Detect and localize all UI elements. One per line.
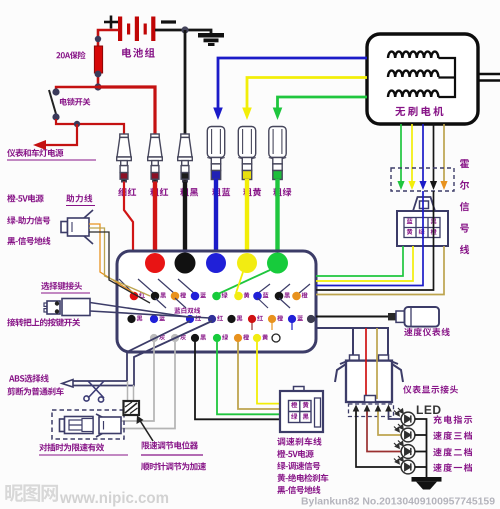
display cable bundle outline bbox=[316, 328, 388, 356]
wire navy pair from select-key connector to controller bbox=[90, 303, 210, 319]
wire to instrument/lamp power with left arrow bbox=[43, 124, 77, 145]
wire thick red to controller bbox=[153, 182, 157, 259]
throttle/brake connector J3 notch bbox=[294, 387, 305, 392]
wire internal diagonal to row1 black bbox=[138, 279, 155, 294]
label 仪表和车灯电源 underlined bbox=[7, 149, 63, 157]
female connector thick-yellow (粗黄) bbox=[238, 127, 255, 180]
wire LED cathodes to ground bus bbox=[415, 419, 427, 477]
wire internal stub below row1 orange bbox=[175, 298, 186, 308]
ground symbol LED bus bbox=[412, 477, 442, 490]
label 接转把上的按键开关 bbox=[7, 318, 80, 326]
label 速度二档 bbox=[433, 448, 472, 457]
label 速度一档 bbox=[433, 463, 472, 472]
motor phase coil V bbox=[388, 71, 438, 77]
wire internal diagonal to row1 black2 bbox=[278, 284, 290, 294]
PAS connector J1 (助力线) wings bbox=[84, 210, 93, 244]
wire internal stub below row1 black bbox=[155, 298, 166, 308]
wire dark-red to LED3 bbox=[367, 416, 401, 452]
bullet connector thin-red (细红) bbox=[117, 134, 132, 182]
display connector bottom notch bbox=[365, 396, 376, 403]
label 对插时为限速有效 underlined bbox=[39, 443, 104, 451]
wire black controller to throttle connector bbox=[195, 342, 280, 419]
node fuse bottom bbox=[95, 71, 102, 78]
controller pin row 3 dots with labels bbox=[150, 334, 158, 342]
limit male connector body bbox=[60, 417, 94, 434]
label 无刷电机 bbox=[395, 106, 443, 116]
wire thick green to controller bbox=[275, 179, 279, 258]
label 顺时针调节为加速 bbox=[141, 462, 206, 470]
label 霍尔信号线 (vertical) bbox=[460, 159, 469, 168]
brushless motor M1 (无刷电机) body bbox=[367, 34, 478, 124]
dashed plug-direction box (hall) bbox=[391, 168, 454, 191]
label 助力线 underlined bbox=[66, 194, 92, 202]
controller pin row 1 dots with labels bbox=[130, 292, 139, 301]
wire blue hall to controller bbox=[316, 191, 423, 286]
wire black battery- to ground and down bbox=[155, 30, 211, 33]
female connector thick-blue (粗蓝) bbox=[207, 127, 224, 180]
wire internal diagonal to row1 red bbox=[119, 279, 134, 294]
label 粗蓝 bbox=[212, 188, 230, 196]
hall connector J4 body bbox=[397, 211, 448, 246]
wire thick black to controller bbox=[183, 182, 187, 259]
label 细红 bbox=[118, 188, 136, 196]
wire gray #1 from controller to limit connector bbox=[121, 342, 154, 421]
female connector thick-green (粗绿) bbox=[269, 127, 286, 180]
select-key connector J2 body bbox=[44, 299, 90, 316]
wire junction to thick-red bullet (goes right then down) bbox=[98, 87, 155, 135]
wire orange controller to throttle connector bbox=[238, 342, 280, 409]
arrowhead blue phase bbox=[213, 108, 223, 121]
limit female connector body bbox=[96, 414, 121, 437]
label 剪断为普通刹车 bbox=[7, 387, 63, 395]
node fuse top bbox=[95, 36, 101, 42]
wire thin red to controller bbox=[124, 182, 133, 294]
switch S1 (电锁开关) blade bbox=[49, 90, 56, 114]
wire yellow controller to throttle connector bbox=[257, 342, 280, 404]
bullet connector thick-red (粗红) bbox=[148, 134, 163, 182]
label 橙-5V电源 bbox=[7, 194, 44, 202]
scissors symbol cutting the pair bbox=[84, 381, 104, 402]
switch S1 bottom contact bbox=[52, 113, 59, 120]
hall connector cell labels bbox=[407, 218, 413, 224]
throttle connector pin grid bbox=[289, 398, 321, 427]
label 黄-绝电检刹车 bbox=[277, 474, 328, 482]
dashed box speed-limit mating pair bbox=[52, 410, 124, 439]
arrowhead yellow phase bbox=[242, 108, 252, 121]
node battery minus junction bbox=[181, 26, 188, 33]
potentiometer R1 (hatched box) bbox=[124, 401, 140, 415]
label 橙-5V电源(bottom) bbox=[277, 450, 314, 458]
wire khaki to LED2 bbox=[378, 416, 401, 436]
node junction on switch output bbox=[74, 121, 80, 127]
wire orange from PAS connector into controller bbox=[89, 224, 134, 293]
wire black down to thick-black bullet bbox=[184, 30, 187, 135]
dashed plug-direction box (display) bbox=[349, 404, 394, 417]
twisted pair end taper bbox=[62, 380, 73, 388]
wire internal diagonal to row1 blue2 bbox=[257, 284, 270, 294]
wire internal diagonal to row1 orange bbox=[158, 279, 175, 294]
label 速度仪表线 bbox=[404, 328, 450, 336]
display connector J6 body bbox=[346, 361, 392, 402]
label 电锁开关 bbox=[60, 98, 91, 106]
label 仪表显示接头 bbox=[403, 385, 458, 393]
wire internal diagonal to row1 orange2 bbox=[298, 284, 310, 294]
terminal big green dot bbox=[267, 253, 288, 274]
wire khaki inside bundle bbox=[376, 328, 378, 399]
PAS connector J1 body bbox=[61, 218, 89, 236]
arrow pointing to potentiometer bbox=[139, 419, 153, 441]
label 蓝白双线 bbox=[174, 307, 200, 313]
wire fuse bottom segment bbox=[97, 73, 100, 87]
motor phase coil U bbox=[388, 52, 438, 58]
wire stubs from ABS pair to potentiometer bbox=[128, 381, 134, 402]
wire junction to switch top bbox=[56, 87, 98, 91]
bullet connector thick-black (粗黑) bbox=[178, 134, 193, 182]
node junction below fuse bbox=[94, 83, 101, 90]
terminal big black dot bbox=[175, 253, 196, 274]
label 粗黑 bbox=[180, 188, 198, 196]
throttle/brake connector J3 body bbox=[280, 391, 323, 432]
terminal big red dot bbox=[145, 253, 165, 273]
plug arrows into display connector bbox=[355, 409, 357, 416]
wire internal stub below row1 blue3 bbox=[258, 298, 269, 308]
hall connector J4 top tab bbox=[413, 197, 435, 211]
wire internal stub row2 blue bbox=[291, 321, 293, 330]
label 电池组 bbox=[122, 48, 154, 58]
motor shaft (double line) bbox=[478, 74, 500, 81]
wire green phase W to bullet bbox=[278, 97, 368, 109]
wire green hall to controller bbox=[316, 246, 403, 276]
label 黑-信号地线 bbox=[7, 237, 50, 245]
motor phase coil W bbox=[388, 91, 438, 97]
arrowhead instrument power bbox=[33, 140, 46, 150]
wire internal yellow diagonal from big yellow dot bbox=[236, 272, 243, 293]
label 20A保险 bbox=[56, 51, 85, 59]
label 粗红 bbox=[150, 188, 168, 196]
label 限速调节电位器 underlined bbox=[142, 441, 198, 449]
wire internal stub row2 red bbox=[251, 321, 253, 330]
LED D1 charge indicator bbox=[394, 408, 415, 426]
wire thick blue to controller bbox=[214, 179, 218, 258]
LED D2 speed 3 bbox=[394, 424, 415, 442]
hall sensor wires from motor with arrows (green yellow blue black orange) bbox=[400, 124, 402, 183]
label 粗绿 bbox=[273, 188, 291, 196]
battery minus terminal symbol bbox=[161, 20, 176, 23]
svg-text:Bylankun82 No.201304091009577: Bylankun82 No.20130409100957745159 bbox=[301, 496, 495, 508]
wire blue phase U to bullet bbox=[218, 58, 367, 109]
wire khaki hall to controller bbox=[316, 246, 444, 295]
wire khaki from PAS connector into controller bbox=[89, 228, 150, 296]
label 调速刹车线 bbox=[277, 437, 321, 445]
label 绿-助力信号 bbox=[7, 216, 50, 224]
label 绿-调速信号 bbox=[277, 462, 320, 470]
arrowhead green phase bbox=[273, 108, 283, 121]
battery pack BT1 (电池组) plates bbox=[118, 17, 155, 42]
LED D4 speed 1 bbox=[394, 456, 415, 474]
battery plus terminal symbol bbox=[104, 16, 118, 29]
watermark nipic logo bbox=[5, 484, 58, 502]
wire thick yellow to controller bbox=[245, 179, 249, 258]
motor star-point wiring bbox=[438, 58, 455, 97]
wire yellow hall to controller bbox=[316, 246, 413, 281]
display connector wings bbox=[335, 360, 403, 382]
hall connector pin grid bbox=[404, 218, 440, 238]
wire internal stub below row1 black3 bbox=[279, 298, 290, 308]
terminal big blue dot bbox=[206, 253, 226, 273]
wire black to LED4 bbox=[356, 416, 401, 468]
fuse F1 20A (red body) bbox=[94, 46, 102, 73]
wire yellow phase V to bullet bbox=[247, 78, 367, 110]
wire internal green diagonal from big green dot bbox=[218, 270, 270, 294]
label 选择键接头 underlined bbox=[41, 282, 82, 290]
wire black from PAS connector into controller bbox=[89, 232, 150, 303]
display connector J6 top tabs bbox=[350, 355, 389, 361]
speedometer plug J5 (速度仪表线) bbox=[388, 307, 439, 327]
LED D3 speed 2 bbox=[394, 441, 415, 459]
throttle connector cell labels bbox=[291, 402, 297, 408]
wire red inside bundle bbox=[365, 328, 367, 399]
controller pin row 2 dots with labels bbox=[127, 315, 135, 323]
wire switch bottom to thin-red bullet bbox=[56, 119, 124, 135]
select-key connector contact dots bbox=[55, 301, 59, 305]
wire navy to LED1 bbox=[389, 416, 402, 420]
wire black controller to speedometer plug bbox=[316, 316, 388, 318]
terminal big yellow dot bbox=[237, 253, 257, 273]
wire green controller to throttle connector bbox=[217, 342, 280, 414]
svg-text:LED: LED bbox=[416, 403, 442, 417]
label 黑-信号地线(bottom) bbox=[277, 486, 320, 494]
ground symbol at battery minus bbox=[198, 33, 224, 46]
label 速度三档 bbox=[433, 431, 472, 440]
svg-text:www.nipic.com: www.nipic.com bbox=[59, 490, 169, 507]
wire red battery+ to fuse bbox=[98, 30, 119, 46]
wire gray #2 from controller to limit connector bbox=[121, 342, 175, 429]
wire blue-white pair #1 (蓝白双线) bbox=[73, 321, 190, 381]
wire blue-white pair #2 bbox=[73, 321, 212, 386]
label 粗黄 bbox=[243, 188, 261, 196]
wire internal diagonal to row1 blue bbox=[178, 279, 195, 294]
controller box U1 bbox=[117, 251, 316, 352]
wire black hall to controller bbox=[316, 191, 434, 290]
switch S1 top contact bbox=[52, 88, 59, 95]
wire internal stub row2 orange bbox=[271, 321, 273, 330]
label 充电指示 bbox=[433, 415, 472, 424]
label ABS选择线 bbox=[9, 374, 49, 382]
